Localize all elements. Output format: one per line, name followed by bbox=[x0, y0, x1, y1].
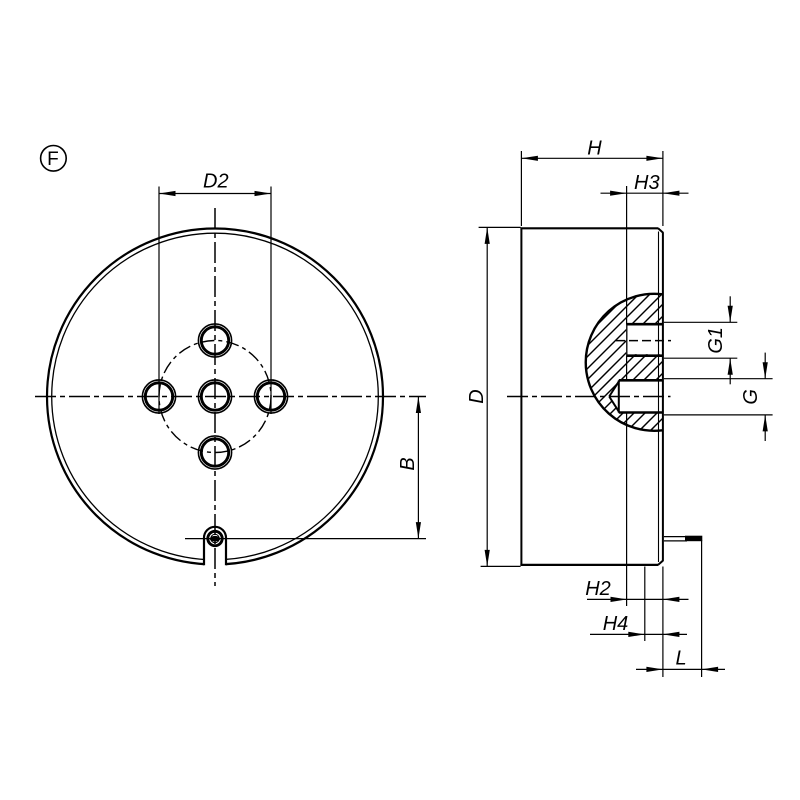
centerline right view bbox=[507, 396, 671, 398]
thread hole G bbox=[609, 381, 663, 412]
vertical centerline left view bbox=[214, 208, 216, 586]
set screw head bbox=[208, 531, 222, 545]
dimension H2 bbox=[587, 598, 689, 600]
right hole bbox=[254, 380, 287, 413]
dimension D2 bbox=[158, 187, 160, 415]
horizontal centerline left view bbox=[35, 396, 426, 398]
thread hole G1 bbox=[626, 325, 663, 354]
disc inner circle (thin) bbox=[52, 233, 379, 560]
svg-text:G1: G1 bbox=[705, 327, 727, 354]
svg-text:F: F bbox=[47, 149, 59, 170]
pin bbox=[664, 536, 687, 538]
svg-text:L: L bbox=[675, 648, 686, 670]
svg-text:D: D bbox=[466, 389, 488, 403]
dimension H4 bbox=[644, 567, 646, 642]
dimension G1 bbox=[664, 321, 737, 323]
top hole bbox=[198, 324, 231, 357]
housing body outline bbox=[520, 228, 522, 565]
svg-text:G: G bbox=[740, 389, 762, 405]
dimension B bbox=[185, 538, 426, 540]
view label F bbox=[41, 146, 67, 172]
svg-text:H: H bbox=[587, 138, 602, 160]
dimension D bbox=[479, 226, 521, 228]
svg-text:H3: H3 bbox=[634, 172, 660, 194]
svg-text:D2: D2 bbox=[203, 171, 229, 193]
bottom tab with set screw bbox=[204, 527, 226, 567]
centerline G1 hole bbox=[616, 340, 671, 342]
disc outer circle bbox=[47, 229, 383, 565]
center hole bbox=[198, 380, 231, 413]
chamfer edge line bbox=[658, 232, 660, 563]
svg-text:H4: H4 bbox=[603, 613, 629, 635]
bottom hole bbox=[198, 436, 231, 469]
dimension H bbox=[520, 151, 522, 226]
left hole bbox=[142, 380, 175, 413]
svg-text:B: B bbox=[397, 457, 419, 470]
dimension H3 bbox=[626, 186, 628, 325]
svg-text:H2: H2 bbox=[585, 578, 611, 600]
bolt circle centerline bbox=[159, 341, 271, 453]
dimension G bbox=[664, 378, 773, 380]
dimension L bbox=[662, 567, 664, 678]
